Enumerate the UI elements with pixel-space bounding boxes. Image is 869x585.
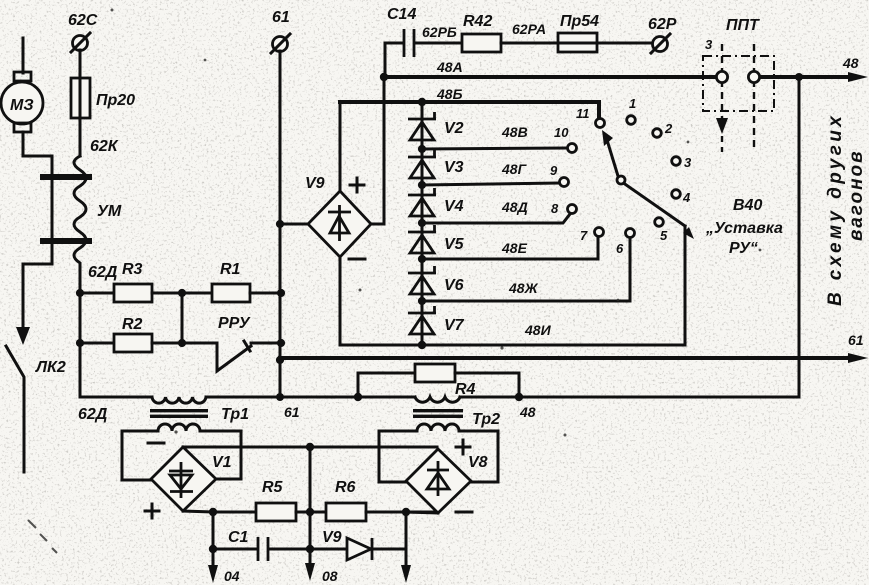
wire tap 48Zh to contact 6 [418, 239, 630, 305]
wire bridge top riser [339, 102, 342, 191]
svg-text:62Д: 62Д [88, 264, 118, 281]
wire rail 48B [340, 86, 599, 118]
svg-text:УМ: УМ [97, 203, 122, 220]
resistor R3 [80, 261, 212, 302]
svg-text:62Д: 62Д [78, 406, 108, 423]
node 62K [90, 138, 119, 155]
svg-text:62К: 62К [90, 138, 119, 155]
contact 7 [580, 228, 604, 244]
svg-text:61: 61 [848, 332, 864, 348]
wire arrow out 04 [208, 549, 240, 584]
rectifier bridge V1 [145, 443, 232, 518]
switch PPT [703, 17, 774, 152]
label V shemu drugih vagonov [825, 113, 867, 306]
wire arrow out 08 [305, 549, 338, 584]
wire motor bottom to UM left [23, 132, 52, 325]
svg-text:6: 6 [616, 241, 624, 256]
wire 62D bus [76, 271, 84, 397]
resistor R5 [256, 479, 326, 521]
svg-text:V8: V8 [468, 454, 488, 471]
node 62D [88, 264, 118, 281]
resistor R2 [80, 316, 217, 352]
terminal 62C [68, 12, 98, 52]
svg-text:ППТ: ППТ [726, 17, 760, 34]
contact 11 [576, 106, 605, 128]
resistor R4 [354, 364, 523, 401]
wire rail bottom 62D-61-48 [78, 397, 799, 423]
rectifier bridge V8 loop [379, 431, 498, 482]
svg-text:48А: 48А [436, 59, 463, 75]
svg-text:V9: V9 [305, 175, 325, 192]
zener V5 [408, 225, 465, 253]
resistor R6 [326, 479, 437, 521]
wire 61 bus [276, 51, 284, 401]
svg-text:7: 7 [580, 228, 588, 243]
wire tap 48E to contact 7 [418, 238, 598, 263]
contact 5 [655, 218, 668, 243]
svg-text:R3: R3 [122, 261, 143, 278]
svg-text:62С: 62С [68, 12, 98, 29]
contact 8 [551, 201, 577, 216]
wire tap 48V to contact 10 [418, 124, 567, 153]
svg-text:РУ“: РУ“ [729, 240, 758, 257]
contact 4 [672, 190, 691, 205]
diode chain wire [421, 102, 424, 345]
svg-text:R6: R6 [335, 479, 356, 496]
node 62RA [512, 21, 546, 37]
contact 9 [550, 163, 569, 187]
svg-text:Тр2: Тр2 [472, 411, 500, 428]
wire riser to bridge V9 right [371, 77, 384, 224]
wire link mid [309, 447, 312, 512]
svg-text:R4: R4 [455, 381, 476, 398]
svg-text:V3: V3 [444, 159, 464, 176]
svg-text:МЗ: МЗ [10, 97, 34, 114]
svg-text:V9: V9 [322, 529, 342, 546]
svg-text:5: 5 [660, 228, 668, 243]
contact 1 [627, 96, 637, 124]
svg-text:61: 61 [284, 404, 300, 420]
svg-text:С14: С14 [387, 6, 416, 23]
svg-text:V1: V1 [212, 454, 232, 471]
svg-text:9: 9 [550, 163, 558, 178]
svg-text:62РА: 62РА [512, 21, 546, 37]
svg-text:вагонов: вагонов [846, 149, 867, 241]
wire V8 bottom [406, 512, 438, 513]
svg-text:48: 48 [519, 404, 536, 420]
svg-text:08: 08 [322, 568, 338, 584]
svg-text:R5: R5 [262, 479, 284, 496]
svg-text:С1: С1 [228, 529, 249, 546]
svg-text:Тр1: Тр1 [221, 406, 249, 423]
svg-text:V4: V4 [444, 198, 464, 215]
svg-text:В40: В40 [733, 197, 762, 214]
svg-text:V7: V7 [444, 317, 465, 334]
wire bridge bottom riser [339, 257, 342, 345]
svg-text:ЛК2: ЛК2 [35, 359, 66, 376]
rectifier bridge V1 loop [122, 431, 241, 480]
capacitor C14 [385, 6, 462, 77]
resistor R42 [462, 13, 558, 52]
wire tap 48D to contact 8 [418, 199, 570, 227]
rectifier bridge V8 [406, 440, 488, 513]
fuse Pr54 [558, 13, 652, 52]
wire bridge left to 61 bus [280, 223, 308, 226]
zener V3 [408, 150, 464, 178]
svg-text:48Д: 48Д [501, 199, 528, 215]
scan speckle marks [28, 9, 761, 554]
svg-text:„Уставка: „Уставка [705, 220, 783, 237]
capacitor C1 [209, 512, 310, 561]
label B40 Ustavka RU [705, 197, 783, 257]
terminal 62R [648, 16, 677, 53]
transformer Tr2 [413, 397, 500, 431]
diode V9 low [306, 512, 406, 560]
svg-text:3: 3 [705, 37, 713, 52]
svg-text:8: 8 [551, 201, 559, 216]
svg-text:48И: 48И [524, 322, 552, 338]
svg-text:4: 4 [682, 190, 691, 205]
svg-text:Пр54: Пр54 [560, 13, 599, 30]
svg-text:V2: V2 [444, 120, 464, 137]
svg-text:2: 2 [664, 121, 673, 136]
svg-text:62Р: 62Р [648, 16, 677, 33]
wire rail 61 right [280, 332, 868, 363]
svg-text:1: 1 [629, 96, 636, 111]
contact 2 [653, 121, 673, 137]
wire rail 48I [340, 226, 685, 349]
switch wiper B40 [602, 130, 694, 239]
contact 10 [554, 125, 577, 153]
contact 6 [616, 229, 635, 257]
svg-text:48Ж: 48Ж [508, 280, 539, 296]
svg-text:48: 48 [842, 55, 859, 71]
contact 3 [672, 155, 692, 170]
svg-text:48Г: 48Г [501, 161, 528, 177]
svg-text:Пр20: Пр20 [96, 92, 135, 109]
relay contact RRU [217, 315, 285, 371]
svg-text:R42: R42 [463, 13, 492, 30]
svg-text:10: 10 [554, 125, 569, 140]
rectifier bridge V9 [305, 175, 371, 259]
zener V2 [408, 112, 464, 140]
svg-text:V5: V5 [444, 236, 465, 253]
wire 48 vertical right [798, 77, 801, 397]
wire tap 48G to contact 9 [418, 161, 559, 189]
svg-text:61: 61 [272, 9, 290, 26]
fuse Pr20 [71, 50, 135, 156]
resistor R1 [178, 261, 285, 302]
svg-text:48Б: 48Б [436, 86, 463, 102]
wire link R3-R2 [178, 293, 186, 347]
wire rail 48A [380, 55, 868, 82]
svg-text:62РБ: 62РБ [422, 24, 457, 40]
wire arrow out right [401, 512, 411, 583]
svg-text:3: 3 [684, 155, 692, 170]
motor M3 [1, 38, 43, 132]
zener V6 [408, 266, 464, 294]
svg-text:48Е: 48Е [501, 240, 528, 256]
magnetic amplifier UM [40, 156, 122, 271]
node 62RB [422, 24, 457, 40]
zener V4 [408, 188, 464, 216]
terminal 61 top [271, 9, 290, 53]
svg-text:РРУ: РРУ [218, 315, 251, 332]
svg-text:В схему других: В схему других [825, 113, 846, 306]
wire V1 top to V8 top [183, 443, 437, 451]
svg-text:R2: R2 [122, 316, 143, 333]
zener V7 [408, 306, 465, 334]
svg-text:V6: V6 [444, 277, 464, 294]
svg-text:R1: R1 [220, 261, 241, 278]
switch LK2 [6, 325, 66, 472]
wire bottom rail V1 to R5 [183, 508, 256, 516]
svg-text:48В: 48В [501, 124, 528, 140]
svg-text:04: 04 [224, 568, 240, 584]
transformer Tr1 [150, 397, 249, 431]
svg-text:11: 11 [576, 106, 590, 121]
